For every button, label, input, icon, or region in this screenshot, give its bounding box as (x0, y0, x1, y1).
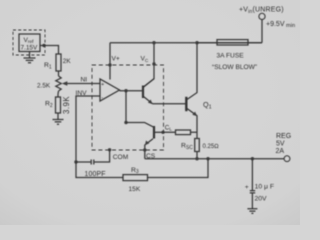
Vin terminal (261, 20, 263, 43)
svg-text:V+: V+ (112, 56, 120, 63)
svg-text:3A FUSE: 3A FUSE (217, 53, 245, 60)
output rail (145, 158, 284, 160)
resistor RSC (195, 139, 200, 152)
node V+ on dashed edge (108, 63, 111, 66)
node Vref output (42, 44, 45, 47)
VC riser (144, 43, 154, 87)
svg-text:15K: 15K (129, 186, 141, 193)
svg-text:REG: REG (276, 133, 291, 140)
wire Vref to R1 (40, 46, 59, 55)
svg-text:“SLOW BLOW”: “SLOW BLOW” (212, 64, 257, 71)
transistor T1 (driver) (142, 86, 144, 99)
wire T1 emitter to Q1 base (153, 103, 187, 105)
capacitor 100PF (76, 150, 110, 165)
resistor R2 (56, 97, 61, 113)
node output cap (251, 157, 254, 160)
wiper arrow of pot (67, 83, 101, 85)
wire R2 to ground (57, 113, 59, 120)
capacitor 10uF output (250, 159, 255, 209)
ground (output cap) (247, 209, 257, 214)
svg-text:7.15V: 7.15V (21, 45, 38, 52)
svg-text:10 μ F: 10 μ F (255, 184, 274, 191)
svg-text:+9.5V min: +9.5V min (266, 21, 295, 29)
node CL (161, 131, 164, 134)
svg-text:5V: 5V (276, 140, 285, 147)
ground (under R2) (53, 120, 64, 125)
node feedback riser (206, 157, 209, 160)
ground (under Vref box) (24, 52, 36, 63)
svg-text:NI: NI (81, 77, 88, 84)
wire CL to emitter riser (163, 131, 197, 133)
node op-amp output (124, 89, 127, 92)
svg-text:2K: 2K (63, 58, 72, 65)
node VC dashed edge (152, 62, 155, 65)
wire INV input (76, 96, 100, 162)
svg-text:COM: COM (113, 154, 128, 161)
top rail Vin (110, 42, 262, 44)
node CS (143, 148, 146, 151)
wire RSC to rail (196, 152, 198, 159)
node T2 branch (124, 121, 127, 124)
svg-text:-: - (101, 95, 103, 101)
svg-text:100PF: 100PF (85, 171, 106, 178)
node COM (108, 148, 111, 151)
transistor T2 (current limiter) (126, 123, 154, 128)
svg-text:2.5K: 2.5K (37, 82, 51, 89)
transistor Q1 pass (185, 97, 187, 111)
wire R1 to pot (58, 71, 60, 76)
resistor R1 (56, 54, 61, 71)
svg-text:2A: 2A (276, 148, 285, 155)
wire T2 branch (125, 91, 127, 123)
Vref box U-ref (19, 34, 40, 52)
svg-text:3.9K: 3.9K (62, 96, 71, 114)
wire op-amp output (120, 90, 143, 92)
op-amp U1 error amplifier (100, 79, 120, 101)
svg-text:+: + (101, 82, 104, 88)
svg-text:+: + (245, 184, 249, 191)
resistor (CL series body) (176, 130, 191, 135)
V+ riser (109, 43, 111, 80)
svg-text:20V: 20V (255, 195, 268, 202)
resistor R3 (123, 175, 148, 181)
wire pot to R2 (57, 91, 60, 97)
feedback loop wire (76, 159, 208, 178)
node RSC bottom (195, 157, 198, 160)
Vref dashed enclosure (13, 30, 45, 55)
node 100pF / INV (74, 160, 77, 163)
node VC rail (152, 41, 155, 44)
main IC dashed box (92, 65, 164, 150)
fuse F1 (197, 42, 262, 44)
potentiometer 2.5K zigzag (56, 76, 61, 91)
REG terminal (284, 156, 290, 162)
svg-text:0.25Ω: 0.25Ω (203, 144, 220, 150)
node Q1 collector rail (195, 41, 198, 44)
